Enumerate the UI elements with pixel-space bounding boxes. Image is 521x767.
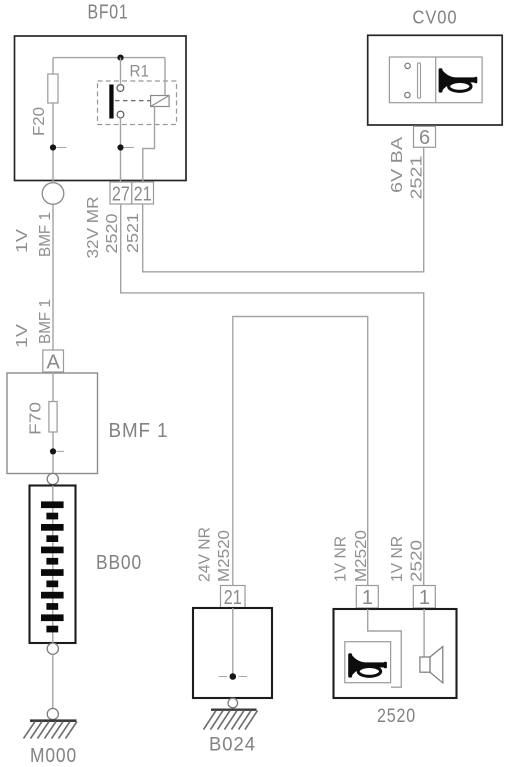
box BMF1	[7, 373, 98, 474]
svg-text:6: 6	[419, 127, 430, 149]
relay R1	[98, 62, 177, 125]
pin 1 (horn right)	[413, 586, 435, 610]
pin 1 (horn left)	[356, 586, 378, 610]
svg-text:21: 21	[224, 587, 242, 609]
svg-text:M2520: M2520	[216, 530, 233, 582]
junction dot top bus	[117, 55, 123, 61]
svg-text:2520: 2520	[104, 213, 121, 253]
wire horn pin to speaker	[423, 609, 425, 657]
svg-text:27: 27	[112, 183, 130, 205]
svg-text:M000: M000	[30, 745, 77, 767]
svg-text:BF01: BF01	[88, 2, 129, 24]
ground B024	[204, 710, 258, 730]
horn icon CV00	[439, 68, 478, 92]
junction dot contact branch	[117, 144, 134, 150]
svg-text:2521: 2521	[409, 156, 426, 200]
svg-text:M2520: M2520	[353, 530, 370, 582]
connector circle below BF01	[42, 183, 64, 205]
wire circle to pin A	[52, 204, 54, 350]
junction dot B024	[219, 673, 248, 680]
connector circle BMF1-BB00	[47, 473, 58, 484]
battery cells	[41, 501, 64, 632]
svg-text:1V: 1V	[14, 228, 31, 253]
svg-text:6V BA: 6V BA	[389, 136, 406, 193]
svg-text:21: 21	[134, 183, 152, 205]
svg-text:1V NR: 1V NR	[389, 536, 406, 582]
wire inside B024	[232, 608, 234, 677]
svg-text:32V MR: 32V MR	[85, 197, 102, 259]
junction dot F20 branch	[50, 144, 67, 150]
wire B024 to horn ground net M2520	[233, 317, 368, 586]
svg-text:24V NR: 24V NR	[197, 527, 214, 582]
pin A	[43, 350, 64, 373]
wire pin A to fuse F70	[52, 372, 54, 402]
wire top bus inside BF01	[53, 57, 165, 59]
pin 27	[110, 182, 132, 205]
svg-text:CV00: CV00	[413, 8, 458, 28]
box BF01	[15, 36, 187, 181]
connector circle B024 ground	[228, 698, 238, 708]
connector circle at M000	[47, 708, 58, 719]
fuse F20	[31, 74, 58, 136]
wire pin27 to horn net 2520	[121, 204, 424, 586]
svg-text:BMF 1: BMF 1	[37, 299, 54, 344]
svg-text:1: 1	[362, 587, 373, 609]
CV00 inner connector block	[389, 57, 482, 103]
pin 21 (B024)	[221, 586, 246, 610]
wire battery center	[52, 486, 54, 644]
box 2520 horn unit	[334, 609, 457, 698]
pin 6	[414, 126, 436, 149]
svg-text:1: 1	[419, 587, 430, 609]
wire F70 to BMF1 bottom	[52, 432, 54, 474]
box BB00 battery	[30, 486, 76, 644]
svg-text:R1: R1	[130, 62, 150, 81]
wire coil feed	[164, 58, 166, 96]
wire BF01 to circle	[52, 181, 54, 183]
wire fuse top lead	[52, 58, 54, 74]
box B024	[193, 608, 272, 698]
svg-text:BMF 1: BMF 1	[109, 420, 169, 442]
box CV00	[368, 35, 503, 125]
svg-text:F70: F70	[28, 402, 45, 435]
wire contact to pin 27	[120, 118, 122, 182]
svg-text:2520: 2520	[409, 540, 426, 582]
horn icon 2520	[348, 653, 387, 677]
horn symbol square	[345, 642, 391, 683]
wire pin21 to CV00 net 2521	[143, 148, 424, 272]
wire fuse bottom lead	[52, 103, 54, 181]
speaker symbol	[420, 647, 443, 683]
wire horn pin to horn symbol	[368, 609, 402, 687]
pin 21	[132, 182, 154, 205]
junction dot in BMF1	[50, 448, 64, 454]
wire top bus to contact	[120, 58, 122, 85]
svg-text:1V NR: 1V NR	[333, 536, 350, 582]
svg-text:2520: 2520	[377, 706, 416, 727]
svg-text:F20: F20	[31, 107, 48, 136]
connector circle below BB00	[47, 643, 58, 654]
svg-text:BB00: BB00	[96, 552, 142, 574]
wire BB00 to ground	[52, 654, 54, 708]
wire coil to pin 21	[143, 107, 155, 183]
svg-text:A: A	[47, 351, 61, 373]
svg-text:2521: 2521	[125, 213, 142, 253]
svg-text:B024: B024	[209, 735, 256, 756]
svg-text:BMF 1: BMF 1	[37, 212, 54, 257]
fuse F70	[28, 402, 58, 436]
svg-text:1V: 1V	[14, 323, 31, 348]
ground M000	[24, 721, 78, 739]
